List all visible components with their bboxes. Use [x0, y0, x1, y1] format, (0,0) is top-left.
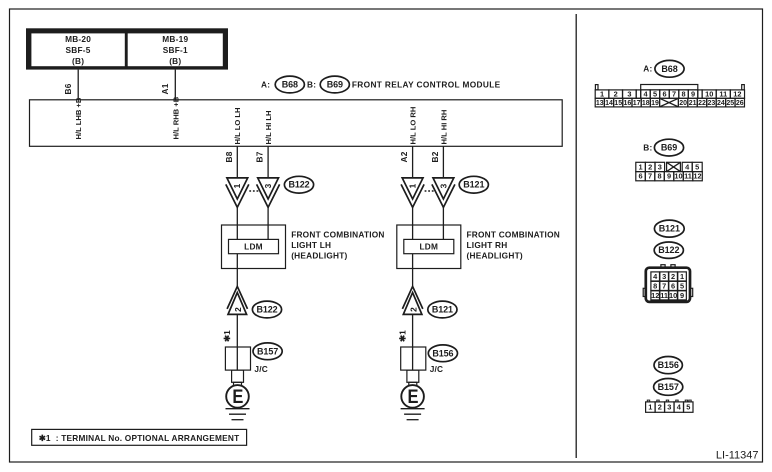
svg-text:3: 3 [658, 162, 662, 171]
svg-text:9: 9 [691, 90, 695, 99]
svg-text:5: 5 [680, 281, 684, 290]
B68 pins 13-26 row [595, 98, 744, 107]
svg-text:1: 1 [648, 403, 652, 412]
svg-text:17: 17 [633, 100, 641, 107]
svg-text:8: 8 [657, 172, 661, 181]
connector B121 pin3 (down) [432, 178, 455, 208]
connector label B122 [252, 301, 281, 318]
svg-text:16: 16 [624, 100, 632, 107]
svg-text:(B): (B) [72, 56, 84, 66]
svg-text:B69: B69 [327, 80, 343, 90]
svg-text:14: 14 [605, 100, 613, 107]
svg-text:11: 11 [660, 291, 668, 300]
front relay control module box [30, 100, 563, 147]
svg-text:H/L HI RH: H/L HI RH [439, 110, 448, 145]
svg-text:3: 3 [667, 403, 671, 412]
ground neck LH [234, 382, 242, 386]
svg-text:10: 10 [705, 90, 713, 99]
connector B122 pin3 (down) [257, 178, 280, 208]
wire module A2 to connector B121 pin1 [412, 146, 414, 178]
connector label B121 [459, 176, 488, 193]
svg-text:2: 2 [648, 162, 652, 171]
svg-text:✱1 : TERMINAL No. OPTIONAL AR: ✱1 : TERMINAL No. OPTIONAL ARRANGEMENT [39, 433, 240, 443]
svg-text:SBF-5: SBF-5 [66, 45, 91, 55]
ground E circle RH [401, 385, 424, 408]
svg-text:20: 20 [679, 100, 687, 107]
svg-text:8: 8 [653, 281, 657, 290]
svg-text:FRONT COMBINATION: FRONT COMBINATION [467, 229, 560, 239]
svg-text:23: 23 [708, 100, 716, 107]
wire B121 pin2 to J/C B156 [412, 314, 414, 347]
pinout connector B156/B157 face [646, 400, 693, 412]
svg-text:B121: B121 [659, 224, 680, 234]
wire B122 pin2 to J/C B157 [236, 314, 238, 347]
svg-text:10: 10 [669, 291, 677, 300]
ground E circle LH [226, 385, 249, 408]
svg-text:LDM: LDM [419, 242, 438, 252]
svg-text:B121: B121 [432, 305, 453, 315]
svg-text:A:: A: [643, 64, 652, 74]
svg-text:7: 7 [648, 172, 652, 181]
connector label B157 [253, 343, 282, 360]
svg-text:J/C: J/C [254, 364, 268, 374]
svg-text:E: E [232, 387, 243, 408]
pinout connector B69 row 1-5 [636, 162, 702, 171]
svg-text:LI-11347: LI-11347 [716, 449, 759, 461]
svg-text:24: 24 [717, 100, 725, 107]
svg-text:LIGHT LH: LIGHT LH [291, 240, 331, 250]
svg-text:B6: B6 [63, 83, 73, 94]
wire B122 pin3 to LDM LH [267, 207, 269, 239]
svg-text:✱1: ✱1 [398, 330, 408, 342]
svg-text:1: 1 [680, 272, 684, 281]
svg-text:B69: B69 [661, 143, 677, 153]
connector B121 pin1 (down) [401, 178, 424, 208]
svg-text:B157: B157 [658, 382, 679, 392]
svg-text:B122: B122 [658, 245, 679, 255]
front combination light RH box [397, 225, 461, 269]
svg-text:B2: B2 [430, 151, 440, 162]
svg-text:B122: B122 [288, 180, 309, 190]
svg-text:(B): (B) [169, 56, 181, 66]
svg-text:MB-20: MB-20 [65, 34, 91, 44]
svg-text:2: 2 [614, 90, 618, 99]
svg-text:2: 2 [233, 307, 243, 312]
svg-text:B122: B122 [256, 305, 277, 315]
B121/B122 face cells [651, 272, 686, 300]
svg-text:(HEADLIGHT): (HEADLIGHT) [467, 251, 523, 261]
svg-text:H/L LO RH: H/L LO RH [409, 107, 418, 145]
svg-text:18: 18 [642, 100, 650, 107]
label front combination light RH [467, 229, 560, 260]
svg-text:25: 25 [726, 100, 734, 107]
ground symbol LH [226, 409, 250, 420]
svg-text:10: 10 [674, 172, 682, 181]
panel divider [575, 14, 577, 458]
svg-text:A:: A: [261, 80, 270, 90]
svg-text:9: 9 [680, 291, 684, 300]
connector B122 pin1 (down) [226, 178, 249, 208]
note box [32, 429, 247, 445]
fuse box MB-20/MB-19 (SBF-5/SBF-1) [26, 28, 228, 69]
svg-text:22: 22 [698, 100, 706, 107]
junction connector B156 [401, 347, 426, 370]
front combination light LH box [222, 225, 286, 269]
svg-text:6: 6 [671, 281, 675, 290]
svg-text:LDM: LDM [244, 242, 263, 252]
svg-text:(HEADLIGHT): (HEADLIGHT) [291, 251, 347, 261]
wire module B7 to connector B122 pin3 [267, 146, 269, 178]
svg-text:9: 9 [667, 172, 671, 181]
svg-text:6: 6 [662, 90, 666, 99]
svg-text:B8: B8 [224, 151, 234, 162]
connector B122 pin2 (up) [227, 286, 247, 314]
svg-text:B:: B: [643, 143, 652, 153]
ground symbol RH [401, 409, 425, 420]
svg-text:H/L HI LH: H/L HI LH [264, 110, 273, 144]
svg-text:3: 3 [438, 183, 448, 188]
pinout connector B69 row 6-12 [636, 172, 703, 181]
pinout label B156 [654, 357, 682, 374]
B68 housing tabs [595, 85, 598, 90]
svg-text:7: 7 [672, 90, 676, 99]
svg-text:7: 7 [662, 281, 666, 290]
svg-text:LIGHT RH: LIGHT RH [467, 240, 508, 250]
svg-text:11: 11 [719, 90, 727, 99]
svg-text:B68: B68 [282, 80, 298, 90]
svg-text:8: 8 [681, 90, 685, 99]
ground terminal block RH [407, 370, 419, 382]
B68 blank keyed cell [660, 98, 679, 107]
svg-text:5: 5 [686, 403, 690, 412]
svg-text:6: 6 [638, 172, 642, 181]
svg-text:2: 2 [658, 403, 662, 412]
svg-text:1: 1 [639, 162, 643, 171]
svg-text:15: 15 [614, 100, 622, 107]
svg-text:5: 5 [653, 90, 657, 99]
ground terminal block LH [232, 370, 244, 382]
junction connector B157 [225, 347, 250, 370]
svg-text:3: 3 [263, 183, 273, 188]
svg-text:1: 1 [232, 183, 242, 188]
svg-text:3: 3 [627, 90, 631, 99]
wire LDM LH to connector B122 pin2 [236, 254, 238, 287]
svg-text:B68: B68 [661, 64, 677, 74]
svg-text:✱1: ✱1 [222, 330, 232, 342]
pinout label B121 [654, 220, 684, 237]
svg-text:FRONT RELAY CONTROL MODULE: FRONT RELAY CONTROL MODULE [352, 80, 501, 90]
wire B121 pin1 to LDM RH [412, 207, 414, 239]
svg-text:2: 2 [671, 272, 675, 281]
wire B121 pin3 to LDM RH [442, 207, 444, 239]
svg-text:FRONT COMBINATION: FRONT COMBINATION [291, 229, 384, 239]
wire module B2 to connector B121 pin3 [442, 146, 444, 178]
svg-text:E: E [408, 387, 419, 408]
svg-text:1: 1 [600, 90, 604, 99]
svg-text:13: 13 [596, 100, 604, 107]
svg-text:B:: B: [307, 80, 316, 90]
svg-text:12: 12 [651, 291, 659, 300]
svg-text:H/L LHB +B: H/L LHB +B [74, 97, 83, 139]
svg-text:B157: B157 [257, 346, 278, 356]
svg-text:B7: B7 [255, 151, 265, 162]
svg-text:B156: B156 [658, 360, 679, 370]
wire module B8 to connector B122 pin1 [236, 146, 238, 178]
pinout connector B121/B122 face [643, 265, 693, 302]
label front combination light LH [291, 229, 384, 260]
svg-text:5: 5 [695, 162, 699, 171]
svg-text:MB-19: MB-19 [162, 34, 188, 44]
svg-text:11: 11 [684, 172, 692, 181]
wire SBF-1 to module pin A1 [174, 70, 176, 100]
wire SBF-5 to module pin B6 [77, 70, 79, 100]
svg-text:19: 19 [651, 100, 659, 107]
ground neck RH [409, 382, 417, 386]
svg-text:21: 21 [689, 100, 697, 107]
wire B122 pin1 to LDM LH [236, 207, 238, 239]
svg-text:1: 1 [408, 183, 418, 188]
dotted pair link RH [425, 190, 435, 192]
svg-text:12: 12 [733, 90, 741, 99]
pinout label B157 [654, 379, 683, 396]
connector label B122 [284, 176, 313, 193]
svg-text:H/L RHB +B: H/L RHB +B [171, 96, 180, 139]
wire LDM RH to connector B121 pin2 [412, 254, 414, 287]
svg-text:B121: B121 [463, 180, 484, 190]
svg-text:SBF-1: SBF-1 [163, 45, 188, 55]
svg-text:26: 26 [736, 100, 744, 107]
svg-text:12: 12 [693, 172, 701, 181]
connector label B156 [428, 345, 457, 362]
svg-text:J/C: J/C [430, 364, 444, 374]
pinout connector B68 [595, 85, 744, 90]
B68 pins 1-12 row [595, 90, 744, 99]
dotted pair link LH [249, 190, 259, 192]
svg-text:A2: A2 [399, 151, 409, 162]
B69 blank keyed cell [667, 162, 681, 171]
pinout label B122 [654, 242, 683, 258]
svg-text:3: 3 [662, 272, 666, 281]
connector label B121 [428, 301, 457, 318]
svg-text:A1: A1 [160, 83, 170, 94]
connector B121 pin2 (up) [402, 286, 422, 314]
svg-text:B156: B156 [432, 348, 453, 358]
svg-text:2: 2 [409, 307, 419, 312]
svg-text:H/L LO LH: H/L LO LH [233, 108, 242, 145]
